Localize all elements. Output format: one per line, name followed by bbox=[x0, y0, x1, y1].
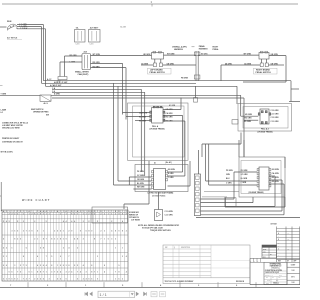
svg-text:C-12 GRN: C-12 GRN bbox=[271, 117, 280, 119]
svg-text:2: 2 bbox=[34, 239, 35, 241]
svg-text:5: 5 bbox=[40, 248, 41, 250]
svg-text:9: 9 bbox=[80, 231, 81, 233]
svg-text:SH R B (CONT): SH R B (CONT) bbox=[1, 152, 14, 154]
svg-text:REVISION: REVISION bbox=[236, 281, 245, 283]
svg-text:GN GRN: GN GRN bbox=[271, 54, 279, 56]
svg-text:B: B bbox=[278, 239, 279, 241]
svg-text:1: 1 bbox=[26, 211, 27, 213]
svg-text:PK GRN: PK GRN bbox=[137, 171, 145, 173]
svg-text:2: 2 bbox=[101, 231, 102, 233]
svg-text:7: 7 bbox=[69, 256, 70, 258]
svg-text:7: 7 bbox=[115, 272, 116, 274]
svg-text:1: 1 bbox=[86, 211, 87, 213]
svg-text:RIGHT BRAKE: RIGHT BRAKE bbox=[256, 68, 271, 71]
svg-text:C-11 GRN: C-11 GRN bbox=[271, 114, 280, 116]
svg-text:BL GRN: BL GRN bbox=[137, 183, 144, 185]
svg-text:C GRN: C GRN bbox=[168, 177, 174, 179]
svg-text:8: 8 bbox=[14, 278, 15, 280]
svg-text:2: 2 bbox=[54, 231, 55, 233]
svg-text:C-11 GRN: C-11 GRN bbox=[165, 214, 174, 216]
svg-text:SH 1: SH 1 bbox=[279, 274, 282, 276]
svg-text:PEDAL: PEDAL bbox=[213, 48, 220, 51]
svg-text:1: 1 bbox=[17, 278, 18, 280]
svg-text:5: 5 bbox=[40, 278, 41, 280]
svg-text:2: 2 bbox=[77, 248, 78, 250]
svg-text:0: 0 bbox=[97, 278, 98, 280]
svg-text:7: 7 bbox=[23, 278, 24, 280]
svg-text:8: 8 bbox=[60, 239, 61, 241]
svg-text:9: 9 bbox=[60, 265, 61, 267]
svg-text:9: 9 bbox=[66, 239, 67, 241]
svg-text:1: 1 bbox=[12, 211, 13, 213]
svg-text:2: 2 bbox=[9, 213, 10, 215]
svg-text:DWG: DWG bbox=[266, 282, 269, 284]
svg-text:5: 5 bbox=[12, 272, 13, 274]
svg-text:FB GRN: FB GRN bbox=[181, 78, 189, 80]
svg-text:7: 7 bbox=[17, 272, 18, 274]
svg-text:2: 2 bbox=[94, 213, 95, 215]
svg-text:1: 1 bbox=[111, 213, 112, 215]
svg-text:8: 8 bbox=[43, 248, 44, 250]
svg-text:1082: 1082 bbox=[292, 270, 295, 272]
svg-text:1: 1 bbox=[12, 248, 13, 250]
svg-text:C-13 GRN: C-13 GRN bbox=[271, 121, 280, 123]
svg-text:5: 5 bbox=[3, 239, 4, 241]
svg-text:7: 7 bbox=[54, 272, 55, 274]
svg-text:5: 5 bbox=[108, 239, 109, 241]
svg-text:CA GRN: CA GRN bbox=[141, 62, 149, 65]
svg-text:3: 3 bbox=[66, 272, 67, 274]
svg-text:8: 8 bbox=[77, 239, 78, 241]
svg-text:0: 0 bbox=[20, 272, 21, 274]
svg-text:5: 5 bbox=[37, 231, 38, 233]
svg-text:9: 9 bbox=[119, 265, 120, 267]
svg-text:2: 2 bbox=[69, 231, 70, 233]
svg-text:DT: DT bbox=[287, 261, 289, 263]
svg-text:2: 2 bbox=[122, 256, 123, 258]
svg-text:C-10 GRN: C-10 GRN bbox=[165, 211, 174, 213]
svg-text:2: 2 bbox=[20, 265, 21, 267]
svg-text:8: 8 bbox=[51, 265, 52, 267]
svg-text:8/97: 8/97 bbox=[276, 280, 279, 282]
svg-text:BL GRN: BL GRN bbox=[241, 178, 248, 180]
svg-text:0: 0 bbox=[91, 231, 92, 233]
svg-text:WT GRN: WT GRN bbox=[244, 53, 252, 55]
svg-text:8: 8 bbox=[51, 239, 52, 241]
svg-text:8: 8 bbox=[94, 239, 95, 241]
svg-text:5: 5 bbox=[3, 248, 4, 250]
svg-text:7: 7 bbox=[43, 272, 44, 274]
svg-text:3: 3 bbox=[63, 248, 64, 250]
svg-text:6: 6 bbox=[6, 265, 7, 267]
svg-text:PEDAL: PEDAL bbox=[199, 45, 206, 48]
svg-text:4-RD A-1 F SUP: 4-RD A-1 F SUP bbox=[54, 81, 68, 84]
svg-text:3: 3 bbox=[54, 239, 55, 241]
svg-text:6: 6 bbox=[119, 278, 120, 280]
svg-text:8: 8 bbox=[40, 272, 41, 274]
svg-text:2: 2 bbox=[31, 213, 32, 215]
svg-text:2: 2 bbox=[88, 213, 89, 215]
svg-text:0: 0 bbox=[63, 265, 64, 267]
svg-text:5: 5 bbox=[17, 231, 18, 233]
svg-text:1 / 1: 1 / 1 bbox=[100, 293, 107, 297]
svg-text:TORQUE SPEC APPLIES: TORQUE SPEC APPLIES bbox=[150, 229, 171, 232]
svg-text:7: 7 bbox=[46, 239, 47, 241]
svg-text:ALT WATT: ALT WATT bbox=[90, 27, 100, 30]
svg-text:0: 0 bbox=[3, 265, 4, 267]
svg-text:REF: REF bbox=[165, 247, 168, 249]
svg-text:7: 7 bbox=[46, 256, 47, 258]
svg-text:WH GRN: WH GRN bbox=[137, 186, 145, 188]
svg-text:8: 8 bbox=[14, 239, 15, 241]
svg-text:AL G: AL G bbox=[44, 102, 49, 105]
svg-text:2: 2 bbox=[108, 211, 109, 213]
svg-text:DR: DR bbox=[266, 277, 268, 279]
svg-text:108211-C: 108211-C bbox=[273, 282, 279, 284]
svg-text:RD GRN: RD GRN bbox=[272, 181, 280, 183]
svg-text:RUN: RUN bbox=[7, 21, 12, 23]
svg-text:3: 3 bbox=[97, 256, 98, 258]
svg-text:1: 1 bbox=[77, 213, 78, 215]
svg-text:CK: CK bbox=[272, 277, 274, 279]
svg-text:1: 1 bbox=[108, 213, 109, 215]
svg-text:2: 2 bbox=[34, 221, 35, 223]
svg-text:2: 2 bbox=[101, 213, 102, 215]
svg-text:C-4: C-4 bbox=[52, 90, 55, 93]
svg-text:1: 1 bbox=[69, 211, 70, 213]
svg-text:RD GRN: RD GRN bbox=[139, 116, 147, 118]
svg-text:1: 1 bbox=[6, 256, 7, 258]
svg-text:1: 1 bbox=[49, 211, 50, 213]
svg-text:3: 3 bbox=[3, 278, 4, 280]
svg-text:1: 1 bbox=[115, 248, 116, 250]
svg-text:2: 2 bbox=[26, 278, 27, 280]
svg-text:1: 1 bbox=[111, 211, 112, 213]
svg-text:B+ 12V: B+ 12V bbox=[121, 26, 127, 28]
svg-text:2: 2 bbox=[74, 213, 75, 215]
svg-text:PEDAL SWITCH: PEDAL SWITCH bbox=[150, 71, 166, 74]
svg-text:1: 1 bbox=[122, 211, 123, 213]
svg-text:2: 2 bbox=[34, 278, 35, 280]
svg-text:5: 5 bbox=[43, 278, 44, 280]
svg-text:RD GRN: RD GRN bbox=[272, 177, 280, 179]
svg-text:GY GRN: GY GRN bbox=[137, 175, 145, 177]
svg-text:8: 8 bbox=[37, 272, 38, 274]
svg-text:3: 3 bbox=[86, 272, 87, 274]
svg-text:6: 6 bbox=[57, 272, 58, 274]
svg-text:SW: SW bbox=[46, 115, 49, 117]
svg-text:1: 1 bbox=[57, 265, 58, 267]
svg-text:2: 2 bbox=[12, 213, 13, 215]
svg-text:3: 3 bbox=[83, 239, 84, 241]
svg-text:T GRN: T GRN bbox=[1, 93, 7, 95]
svg-text:x xx: x xx bbox=[263, 251, 266, 253]
svg-text:0: 0 bbox=[29, 272, 30, 274]
svg-text:GN GRN: GN GRN bbox=[271, 63, 279, 65]
svg-text:GROUND LUG TERM: GROUND LUG TERM bbox=[2, 127, 20, 129]
svg-text:ALT WHTLE: ALT WHTLE bbox=[7, 37, 18, 40]
svg-text:CAB GRN: CAB GRN bbox=[139, 111, 148, 114]
svg-text:3: 3 bbox=[14, 265, 15, 267]
svg-text:TEST NO TKTL SUMMER INTERN: TEST NO TKTL SUMMER INTERNAT bbox=[165, 280, 195, 283]
svg-text:GY GRN: GY GRN bbox=[241, 174, 249, 176]
svg-text:OVERALL (LEFT): OVERALL (LEFT) bbox=[172, 46, 187, 49]
svg-text:1: 1 bbox=[23, 211, 24, 213]
svg-text:RD GRN: RD GRN bbox=[139, 120, 147, 122]
svg-text:6: 6 bbox=[26, 248, 27, 250]
svg-text:1: 1 bbox=[97, 272, 98, 274]
svg-text:1: 1 bbox=[60, 213, 61, 215]
svg-text:RD GRN: RD GRN bbox=[245, 118, 253, 120]
svg-text:9: 9 bbox=[119, 231, 120, 233]
svg-text:2: 2 bbox=[126, 231, 127, 233]
svg-text:B GRN: B GRN bbox=[168, 173, 174, 175]
svg-text:1: 1 bbox=[63, 231, 64, 233]
svg-text:3: 3 bbox=[12, 231, 13, 233]
svg-text:7: 7 bbox=[26, 231, 27, 233]
svg-text:3: 3 bbox=[23, 231, 24, 233]
svg-text:1: 1 bbox=[31, 211, 32, 213]
svg-text:1: 1 bbox=[23, 213, 24, 215]
svg-text:6: 6 bbox=[43, 265, 44, 267]
svg-text:5: 5 bbox=[57, 231, 58, 233]
svg-text:8: 8 bbox=[115, 231, 116, 233]
svg-text:C GRN: C GRN bbox=[226, 183, 232, 185]
svg-text:7: 7 bbox=[94, 272, 95, 274]
svg-text:9: 9 bbox=[74, 265, 75, 267]
svg-text:OR GRN: OR GRN bbox=[137, 179, 145, 181]
svg-text:6: 6 bbox=[60, 278, 61, 280]
svg-text:7: 7 bbox=[101, 239, 102, 241]
svg-text:9: 9 bbox=[31, 231, 32, 233]
svg-text:1: 1 bbox=[31, 272, 32, 274]
svg-text:xx x: xx x bbox=[263, 246, 266, 248]
svg-text:2: 2 bbox=[40, 265, 41, 267]
svg-text:A GRN: A GRN bbox=[54, 92, 60, 95]
svg-text:0: 0 bbox=[9, 272, 10, 274]
svg-text:CUT HARN: CUT HARN bbox=[131, 218, 141, 221]
svg-text:HARNESS: HARNESS bbox=[174, 48, 184, 51]
svg-text:(ON SEAT FRAME): (ON SEAT FRAME) bbox=[150, 128, 165, 131]
svg-text:SHT 1: SHT 1 bbox=[291, 276, 295, 278]
svg-text:5: 5 bbox=[14, 231, 15, 233]
svg-text:1: 1 bbox=[6, 278, 7, 280]
svg-text:1: 1 bbox=[29, 213, 30, 215]
svg-text:CONTINUED ON 18/11/97: CONTINUED ON 18/11/97 bbox=[2, 142, 23, 144]
svg-text:1: 1 bbox=[46, 272, 47, 274]
svg-text:HD GRN: HD GRN bbox=[245, 114, 253, 116]
svg-text:0: 0 bbox=[77, 278, 78, 280]
svg-text:8: 8 bbox=[122, 231, 123, 233]
svg-text:PR GRN: PR GRN bbox=[226, 170, 233, 172]
svg-text:7: 7 bbox=[77, 272, 78, 274]
svg-text:2: 2 bbox=[69, 272, 70, 274]
svg-text:HARNESS: HARNESS bbox=[199, 48, 209, 51]
svg-text:1: 1 bbox=[86, 213, 87, 215]
svg-text:PELL A-2: PELL A-2 bbox=[261, 128, 269, 131]
svg-text:8: 8 bbox=[43, 239, 44, 241]
svg-text:3: 3 bbox=[115, 239, 116, 241]
svg-text:CA GRN: CA GRN bbox=[272, 172, 280, 175]
svg-text:3: 3 bbox=[49, 278, 50, 280]
svg-text:8: 8 bbox=[119, 272, 120, 274]
svg-text:5: 5 bbox=[12, 278, 13, 280]
svg-text:1: 1 bbox=[63, 211, 64, 213]
svg-text:XX XXX: XX XXX bbox=[271, 223, 278, 225]
svg-text:2: 2 bbox=[14, 213, 15, 215]
svg-text:2: 2 bbox=[83, 221, 84, 223]
svg-text:2: 2 bbox=[17, 213, 18, 215]
svg-text:8: 8 bbox=[104, 265, 105, 267]
svg-text:OPERATOR PRES: OPERATOR PRES bbox=[33, 110, 49, 113]
svg-text:3: 3 bbox=[51, 272, 52, 274]
svg-text:1: 1 bbox=[37, 239, 38, 241]
svg-text:3: 3 bbox=[104, 231, 105, 233]
svg-text:3: 3 bbox=[66, 265, 67, 267]
svg-text:2: 2 bbox=[104, 213, 105, 215]
svg-text:C GRN: C GRN bbox=[241, 182, 247, 184]
svg-text:RD GRN: RD GRN bbox=[244, 121, 252, 123]
svg-text:5: 5 bbox=[66, 278, 67, 280]
svg-text:5: 5 bbox=[86, 231, 87, 233]
svg-text:7: 7 bbox=[29, 278, 30, 280]
svg-text:2: 2 bbox=[17, 239, 18, 241]
svg-text:1: 1 bbox=[63, 239, 64, 241]
svg-text:2: 2 bbox=[122, 278, 123, 280]
svg-text:CAB (WHT): CAB (WHT) bbox=[78, 73, 89, 76]
svg-text:8: 8 bbox=[91, 272, 92, 274]
svg-text:8: 8 bbox=[88, 231, 89, 233]
svg-text:RD GRN: RD GRN bbox=[166, 117, 174, 119]
svg-text:1: 1 bbox=[9, 211, 10, 213]
svg-text:3: 3 bbox=[3, 256, 4, 258]
svg-text:4A GRN: 4A GRN bbox=[225, 62, 232, 65]
svg-text:1: 1 bbox=[43, 213, 44, 215]
svg-text:C-10 GRN: C-10 GRN bbox=[271, 110, 280, 112]
svg-text:1: 1 bbox=[49, 213, 50, 215]
svg-text:5: 5 bbox=[91, 278, 92, 280]
svg-text:0: 0 bbox=[20, 239, 21, 241]
svg-text:1: 1 bbox=[66, 213, 67, 215]
svg-text:GN GRN: GN GRN bbox=[272, 169, 280, 171]
svg-text:2: 2 bbox=[80, 211, 81, 213]
svg-text:5: 5 bbox=[26, 265, 27, 267]
svg-text:1: 1 bbox=[122, 248, 123, 250]
svg-text:1: 1 bbox=[46, 213, 47, 215]
svg-text:5: 5 bbox=[77, 265, 78, 267]
svg-text:8: 8 bbox=[23, 256, 24, 258]
svg-text:3: 3 bbox=[111, 239, 112, 241]
svg-text:1: 1 bbox=[115, 278, 116, 280]
svg-text:LEFT BRAKE: LEFT BRAKE bbox=[150, 68, 163, 71]
svg-text:(B+ A1): (B+ A1) bbox=[166, 161, 173, 164]
svg-text:6: 6 bbox=[60, 231, 61, 233]
svg-text:1: 1 bbox=[83, 213, 84, 215]
svg-text:PEDAL SWITCH: PEDAL SWITCH bbox=[256, 71, 272, 74]
svg-text:1: 1 bbox=[14, 211, 15, 213]
svg-text:GN GRN: GN GRN bbox=[168, 169, 176, 171]
svg-text:1: 1 bbox=[60, 211, 61, 213]
svg-text:WT GRN: WT GRN bbox=[167, 53, 175, 55]
svg-text:1: 1 bbox=[57, 239, 58, 241]
svg-text:1: 1 bbox=[43, 231, 44, 233]
svg-text:1082: 1082 bbox=[292, 282, 295, 284]
svg-text:xx xx: xx xx bbox=[263, 249, 267, 251]
svg-text:8: 8 bbox=[91, 265, 92, 267]
svg-text:5: 5 bbox=[57, 278, 58, 280]
svg-text:7: 7 bbox=[23, 265, 24, 267]
svg-text:2: 2 bbox=[23, 221, 24, 223]
svg-text:4-CAB F SUP: 4-CAB F SUP bbox=[50, 84, 62, 87]
svg-text:5: 5 bbox=[88, 278, 89, 280]
svg-text:CA GRN: CA GRN bbox=[244, 62, 252, 65]
svg-text:LH PED SW (ON SEAT FRAME): LH PED SW (ON SEAT FRAME) bbox=[148, 191, 174, 194]
svg-text:(ON SEAT FRAME): (ON SEAT FRAME) bbox=[258, 130, 273, 133]
svg-text:0: 0 bbox=[60, 256, 61, 258]
svg-text:DESCRIPTION: DESCRIPTION bbox=[181, 247, 190, 249]
svg-text:Q: Q bbox=[174, 247, 175, 249]
svg-text:GN GRN: GN GRN bbox=[167, 63, 175, 65]
svg-text:1: 1 bbox=[54, 211, 55, 213]
svg-text:1: 1 bbox=[104, 239, 105, 241]
svg-text:PELL A: PELL A bbox=[152, 125, 159, 128]
svg-text:1: 1 bbox=[37, 213, 38, 215]
svg-text:2: 2 bbox=[115, 213, 116, 215]
svg-text:SMALL WHITE: SMALL WHITE bbox=[75, 70, 90, 73]
svg-text:9: 9 bbox=[71, 231, 72, 233]
svg-text:HD GRN: HD GRN bbox=[143, 54, 151, 56]
svg-text:PRINTED IN 18/96/97: PRINTED IN 18/96/97 bbox=[2, 138, 19, 140]
svg-text:8: 8 bbox=[9, 278, 10, 280]
svg-text:C: C bbox=[278, 249, 279, 251]
svg-text:2: 2 bbox=[83, 278, 84, 280]
svg-text:CA GRN: CA GRN bbox=[166, 112, 174, 115]
svg-text:2: 2 bbox=[6, 248, 7, 250]
svg-text:5: 5 bbox=[51, 256, 52, 258]
svg-text:3: 3 bbox=[29, 231, 30, 233]
svg-text:8: 8 bbox=[69, 265, 70, 267]
svg-text:2: 2 bbox=[51, 211, 52, 213]
svg-text:xx x: xx x bbox=[263, 256, 266, 258]
svg-text:WIRE CHART: WIRE CHART bbox=[22, 198, 51, 202]
svg-text:6: 6 bbox=[37, 278, 38, 280]
